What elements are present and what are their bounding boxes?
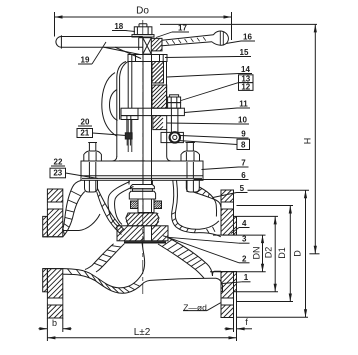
stuffing box bbox=[153, 116, 167, 130]
label 18 bbox=[112, 22, 135, 32]
bonnet neck bbox=[112, 130, 171, 161]
outlet floor wall bbox=[172, 180, 221, 237]
svg-text:4: 4 bbox=[242, 219, 247, 228]
svg-text:H: H bbox=[303, 138, 313, 145]
label 5 bbox=[213, 184, 248, 198]
svg-text:11: 11 bbox=[239, 100, 248, 109]
handwheel 19 bbox=[56, 31, 229, 58]
label 21 bbox=[77, 129, 126, 138]
label 23 bbox=[50, 168, 98, 178]
svg-text:b: b bbox=[52, 318, 57, 328]
right flange bbox=[221, 190, 237, 318]
svg-text:D2: D2 bbox=[264, 247, 274, 259]
gland bolt 20 nut 21 bbox=[125, 116, 132, 146]
label 3 bbox=[168, 235, 250, 244]
label 10 bbox=[167, 116, 249, 125]
svg-text:15: 15 bbox=[240, 48, 249, 57]
dimension D2 bbox=[237, 216, 278, 291]
svg-text:DN: DN bbox=[252, 247, 262, 260]
bonnet flange bbox=[81, 161, 203, 180]
svg-text:D: D bbox=[293, 250, 303, 257]
stem 15 bbox=[143, 20, 152, 294]
label 8 bbox=[178, 139, 250, 149]
eyebolt 8 nut 9 pin bbox=[161, 95, 183, 143]
label 11 bbox=[185, 100, 251, 113]
body right hub bbox=[212, 271, 222, 291]
svg-text:5: 5 bbox=[240, 184, 245, 193]
label 17 bbox=[156, 24, 189, 38]
label 7 bbox=[202, 159, 249, 170]
bonnet bolts 7 bbox=[84, 143, 200, 179]
svg-text:2: 2 bbox=[242, 254, 247, 263]
svg-text:23: 23 bbox=[53, 169, 62, 178]
svg-text:19: 19 bbox=[81, 56, 90, 65]
svg-text:12: 12 bbox=[241, 83, 250, 92]
svg-text:18: 18 bbox=[114, 22, 123, 31]
label 15 bbox=[165, 48, 251, 58]
label 16 bbox=[226, 33, 255, 44]
label 13 bbox=[239, 74, 254, 83]
stem nut 18 bbox=[132, 24, 154, 37]
dimension Do bbox=[55, 6, 232, 41]
seat skirt bbox=[85, 244, 124, 272]
body left wall bbox=[62, 180, 199, 237]
seat ring 3 bbox=[117, 226, 168, 243]
dimension H bbox=[160, 24, 320, 253]
yoke bbox=[102, 55, 167, 158]
handwheel hub bbox=[139, 38, 162, 54]
label 12 bbox=[181, 83, 253, 101]
left flange bbox=[43, 189, 63, 318]
dimension b bbox=[39, 318, 72, 332]
svg-text:17: 17 bbox=[178, 24, 187, 33]
dimension D bbox=[237, 190, 310, 317]
packing 14-13-12 bbox=[152, 62, 167, 109]
dimension L±2 bbox=[47, 292, 236, 341]
body sump wall bbox=[63, 243, 223, 294]
dimension f bbox=[225, 317, 253, 332]
label 22 bbox=[51, 158, 65, 167]
svg-text:3: 3 bbox=[242, 235, 247, 244]
label Z-d bolt holes bbox=[183, 301, 225, 313]
svg-text:L±2: L±2 bbox=[134, 327, 151, 338]
svg-text:21: 21 bbox=[80, 129, 89, 138]
label 14 bbox=[167, 65, 252, 77]
dimension D1 bbox=[237, 206, 294, 302]
bridge wall bbox=[158, 238, 213, 278]
svg-text:22: 22 bbox=[54, 158, 63, 167]
dimension DN bbox=[210, 235, 266, 272]
label 20 bbox=[78, 118, 92, 127]
svg-text:6: 6 bbox=[241, 171, 246, 180]
label 1 bbox=[223, 273, 251, 284]
label 19 bbox=[78, 42, 106, 65]
svg-text:20: 20 bbox=[81, 118, 90, 127]
svg-text:16: 16 bbox=[243, 33, 252, 42]
svg-text:D1: D1 bbox=[277, 247, 287, 259]
svg-text:9: 9 bbox=[241, 130, 246, 139]
svg-text:Do: Do bbox=[136, 6, 149, 17]
label 6 bbox=[194, 171, 249, 180]
svg-text:1: 1 bbox=[244, 273, 249, 282]
label 4 bbox=[231, 219, 250, 234]
label 2 bbox=[163, 236, 250, 264]
gland 11 bbox=[121, 108, 184, 119]
disc 4 bbox=[126, 180, 162, 226]
bore edges bbox=[43, 214, 221, 269]
svg-text:8: 8 bbox=[241, 140, 246, 149]
label 9 bbox=[181, 130, 249, 139]
svg-text:7: 7 bbox=[241, 159, 246, 168]
svg-text:14: 14 bbox=[241, 65, 250, 74]
svg-text:10: 10 bbox=[238, 116, 247, 125]
body right wall bbox=[193, 187, 221, 217]
gasket 6 bbox=[82, 177, 202, 179]
